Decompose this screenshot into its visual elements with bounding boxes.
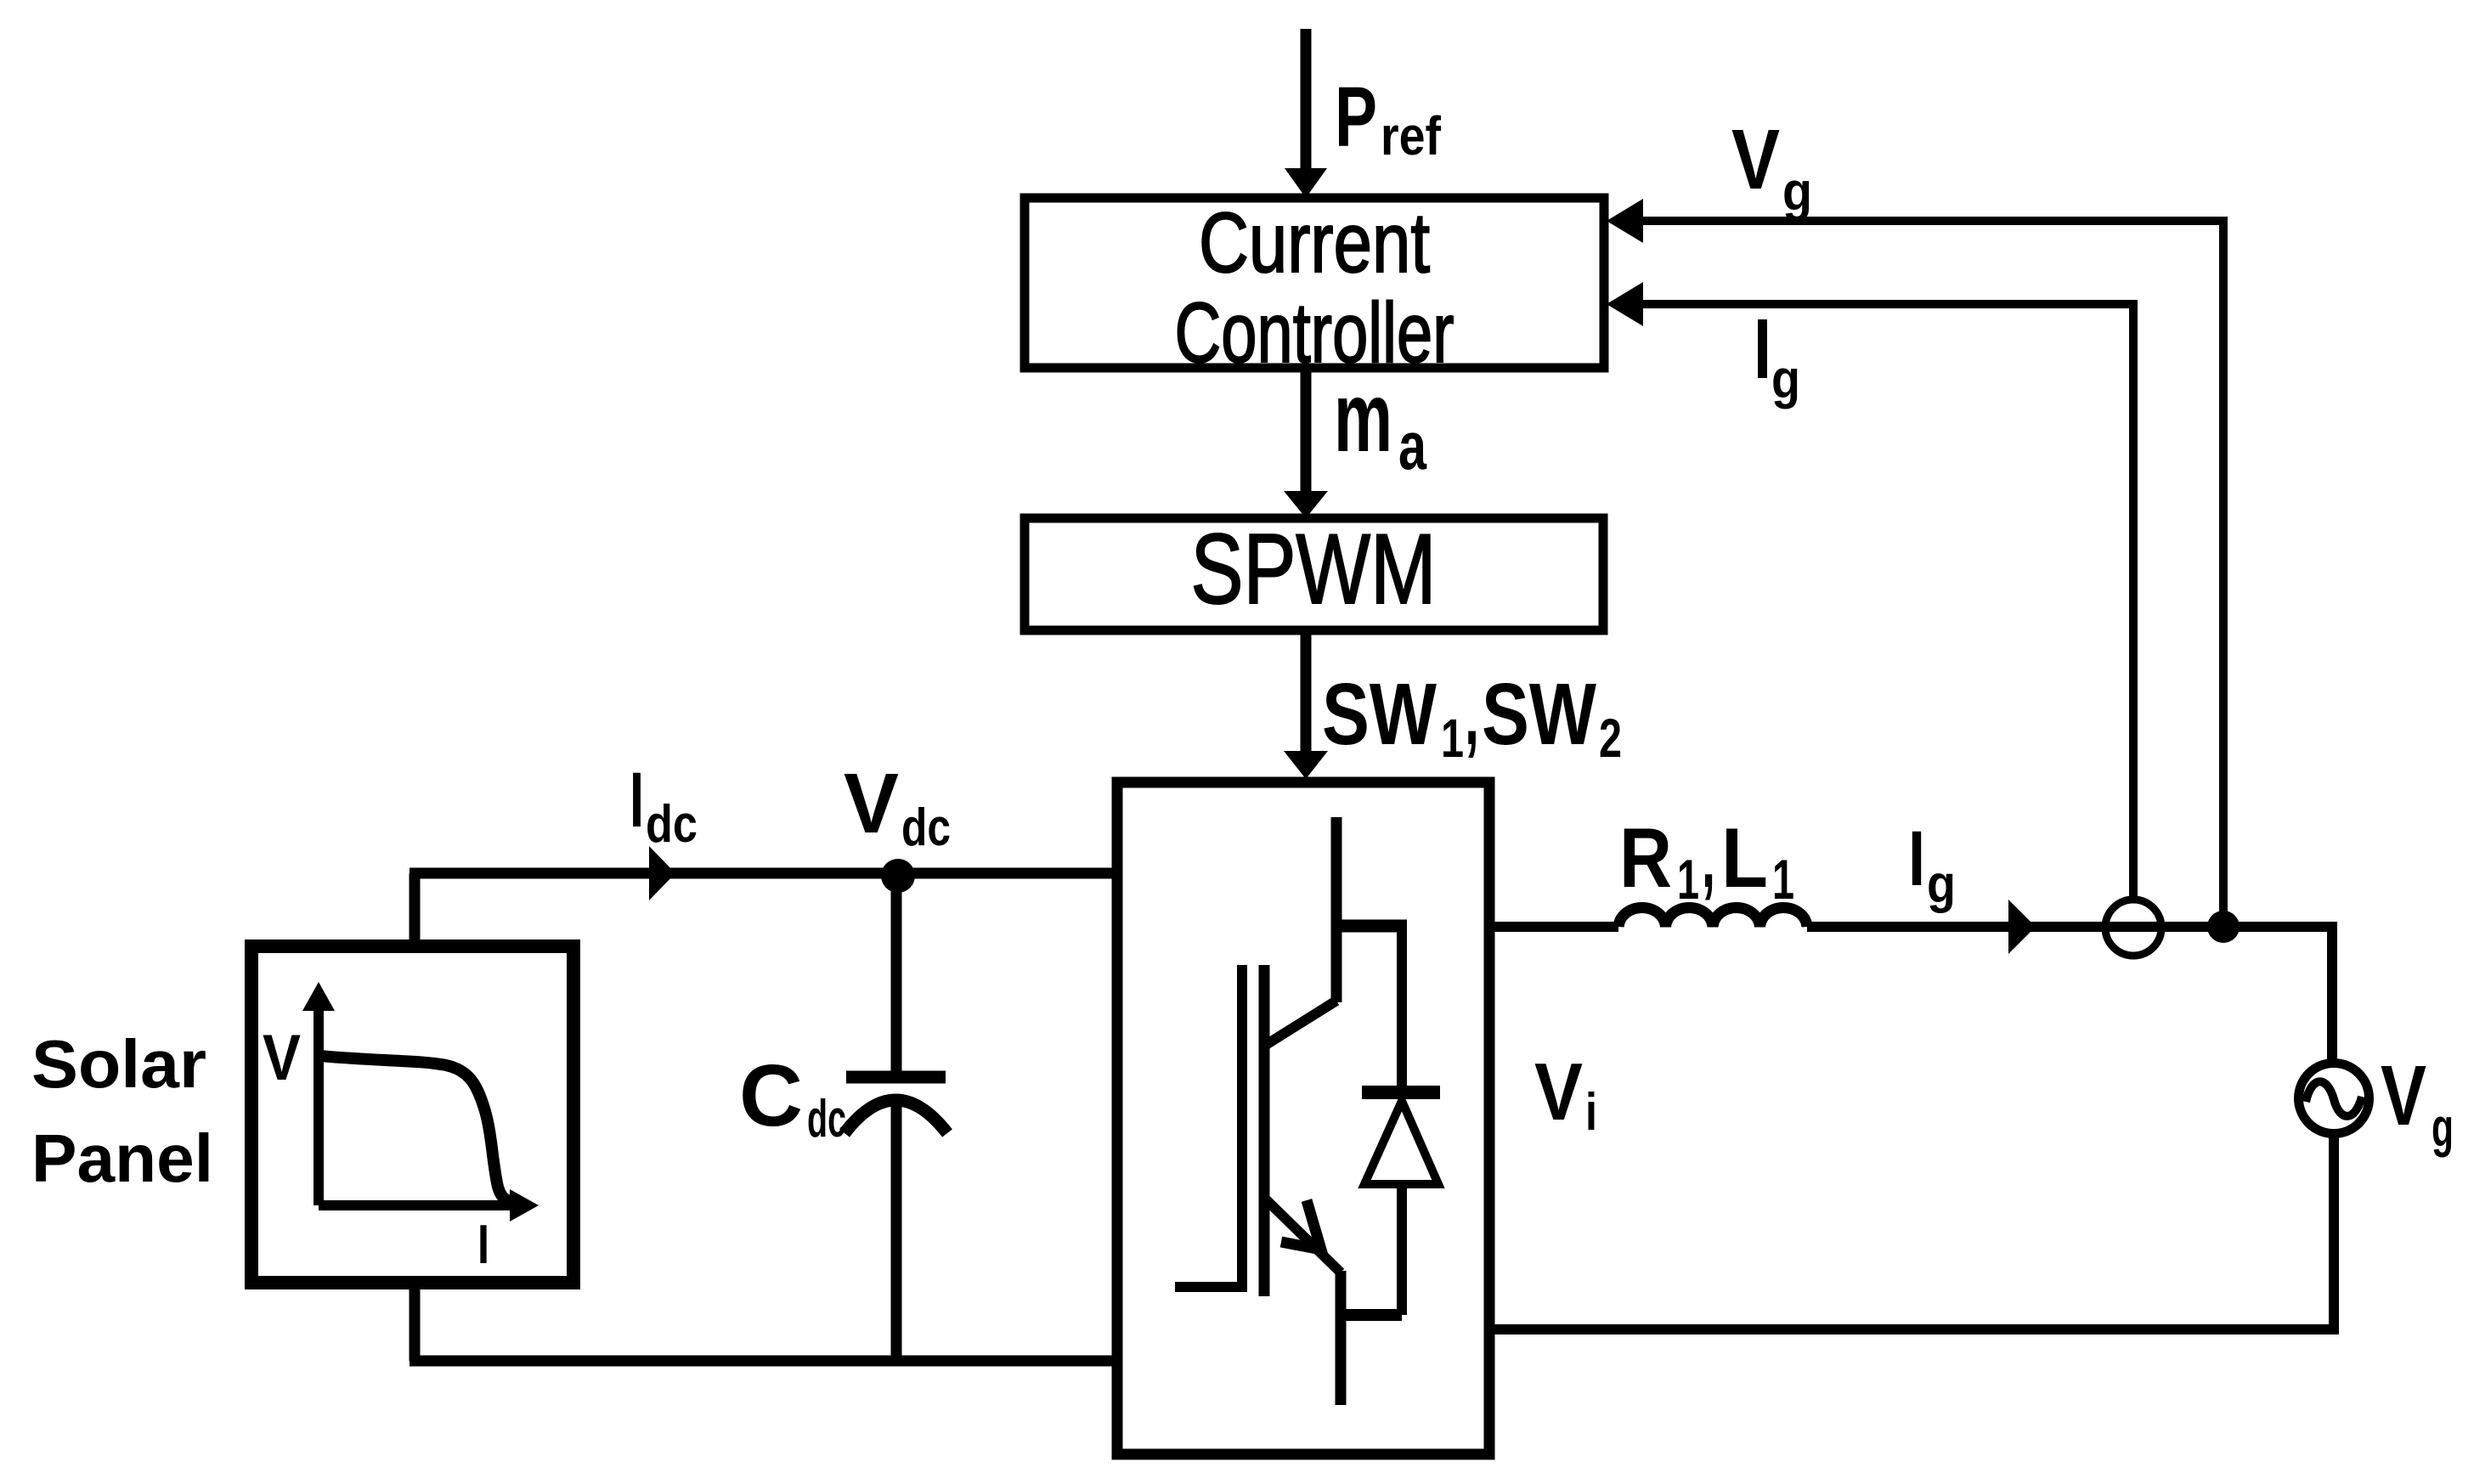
svg-text:I: I (1908, 815, 1925, 902)
label Cdc (739, 1047, 846, 1148)
label Vg source (2381, 1048, 2454, 1158)
label Pref (1335, 70, 1442, 166)
svg-text:R: R (1619, 810, 1672, 905)
solar IV curve (320, 1056, 520, 1203)
svg-text:dc: dc (646, 795, 698, 854)
block Current Controller (1025, 195, 1604, 381)
svg-text:C: C (739, 1047, 803, 1144)
diode triangle (1364, 1101, 1438, 1184)
transistor SW2 emitter lead (1336, 1271, 1347, 1405)
diode lower lead (1397, 1181, 1407, 1315)
wire Vg feedback into controller (1607, 199, 2228, 917)
transistor SW1 collector lead (1331, 817, 1342, 1002)
diode cathode bar (1362, 1086, 1440, 1099)
transistor SW2 emitter diagonal (1266, 1199, 1341, 1272)
solar VI curve V axis (302, 982, 335, 1205)
wire solar top stub (410, 873, 421, 946)
node grid junction (2207, 911, 2240, 943)
wire inverter bottom link (1336, 1309, 1402, 1321)
svg-text:V: V (1731, 112, 1780, 207)
svg-text:V: V (1534, 1047, 1583, 1137)
svg-text:Controller: Controller (1175, 285, 1454, 381)
svg-text:Solar: Solar (31, 1026, 206, 1102)
arrow Ig (2008, 900, 2036, 954)
svg-text:Current: Current (1199, 195, 1430, 291)
svg-text:SW: SW (1322, 665, 1438, 763)
label SW1,SW2 (1322, 665, 1622, 769)
label Vg feedback (1731, 112, 1812, 222)
svg-text:a: a (1398, 408, 1426, 483)
svg-text:I: I (630, 757, 644, 844)
label R1,L1 (1619, 810, 1794, 911)
svg-text:Panel: Panel (31, 1120, 213, 1196)
svg-text:i: i (1585, 1083, 1597, 1142)
wire inverter top bar (1331, 920, 1407, 933)
wire AC return (1489, 1324, 2339, 1334)
svg-text:V: V (844, 756, 899, 851)
svg-text:I: I (477, 1213, 489, 1275)
label ma (1334, 361, 1426, 483)
wire below grid source (2329, 1137, 2339, 1329)
svg-text:dc: dc (807, 1090, 846, 1148)
svg-text:1: 1 (1441, 708, 1464, 769)
svg-text:2: 2 (1599, 708, 1622, 769)
svg-text:g: g (1771, 348, 1800, 409)
svg-text:SW: SW (1482, 665, 1597, 763)
capacitor Cdc (844, 876, 947, 1361)
wire SW1 SW2 arrow (1284, 630, 1328, 779)
wire Pref input arrow (1285, 29, 1327, 198)
wire solar bottom stub (410, 1283, 421, 1361)
label Vi (1534, 1047, 1597, 1142)
svg-text:g: g (1782, 161, 1812, 222)
svg-text:1: 1 (1677, 848, 1699, 911)
inductor R1 L1 (1618, 907, 1807, 927)
wire Ig feedback into controller (1607, 282, 2138, 900)
svg-text:V: V (2381, 1048, 2426, 1143)
svg-text:L: L (1721, 810, 1768, 905)
wire DC minus (410, 1356, 1117, 1367)
svg-text:g: g (2432, 1097, 2454, 1158)
label Idc (630, 757, 698, 854)
svg-text:m: m (1334, 361, 1392, 472)
label Vdc (844, 756, 951, 857)
solar VI curve I axis (319, 1189, 539, 1222)
svg-text:SPWM: SPWM (1191, 513, 1437, 624)
label Solar Panel (31, 1026, 213, 1196)
svg-text:dc: dc (901, 798, 951, 857)
svg-text:V: V (263, 1022, 301, 1094)
transistor gate lead (1175, 965, 1242, 1287)
svg-text:I: I (1754, 302, 1771, 397)
wire AC line (1807, 922, 2332, 932)
wire ma arrow (1284, 368, 1328, 518)
wire DC plus (410, 868, 1117, 879)
node Vdc (881, 859, 915, 893)
arrow Idc (649, 846, 675, 900)
svg-text:ref: ref (1381, 105, 1442, 166)
wire down to grid source (2327, 922, 2337, 1061)
diode upper lead (1397, 926, 1407, 1092)
label Ig line (1908, 815, 1956, 914)
svg-text:P: P (1335, 70, 1377, 165)
svg-text:,: , (1465, 665, 1479, 763)
svg-text:,: , (1702, 810, 1715, 905)
transistor SW2 emitter arrow (1281, 1200, 1321, 1250)
transistor SW1 emitter diagonal (1266, 1001, 1336, 1045)
block inverter (1117, 782, 1489, 1454)
block solar panel (251, 946, 573, 1283)
label Ig feedback (1754, 302, 1800, 409)
svg-text:g: g (1927, 855, 1956, 914)
svg-text:1: 1 (1772, 848, 1794, 911)
current sensor circle (2105, 900, 2161, 956)
wire AC output (1489, 922, 1618, 932)
transistor body bar (1259, 965, 1270, 1296)
block SPWM (1025, 513, 1603, 630)
source Vg grid (2299, 1064, 2370, 1134)
